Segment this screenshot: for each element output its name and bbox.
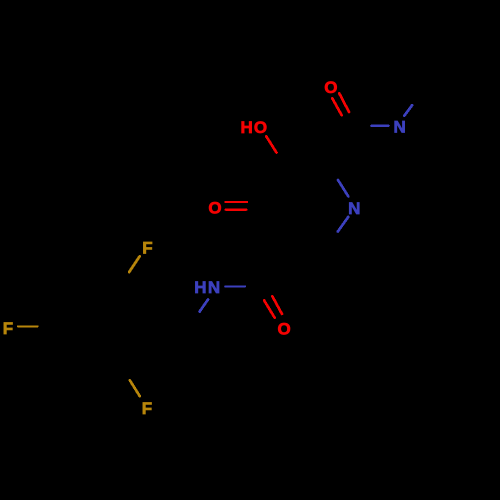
top amide C=O main line oxygen half — [339, 93, 349, 112]
C2-N1 ring bond nitrogen half — [338, 180, 348, 196]
N-cyclopropyl bond nitrogen half — [404, 105, 412, 115]
F left bond fluorine half — [18, 325, 37, 327]
svg-text:N: N — [348, 199, 360, 218]
top amide C=O inner line oxygen half — [332, 98, 341, 115]
svg-text:H: H — [241, 118, 253, 137]
bottom amide C=O inner line oxygen half — [264, 301, 275, 318]
svg-text:F: F — [142, 239, 152, 258]
ketone C4=O upper line oxygen half — [226, 201, 248, 203]
bottom amide C=O main line oxygen half — [272, 296, 282, 314]
F top bond fluorine half — [129, 256, 139, 272]
svg-text:O: O — [208, 199, 221, 218]
svg-text:N: N — [394, 117, 406, 136]
N1-C6 ring bond nitrogen half — [338, 217, 349, 232]
svg-text:O: O — [277, 320, 290, 339]
bond C3-OH oxygen half — [266, 136, 276, 152]
svg-text:N: N — [208, 278, 220, 297]
ketone C4=O lower line oxygen half — [226, 209, 247, 211]
svg-text:F: F — [3, 319, 13, 338]
svg-text:H: H — [194, 278, 206, 297]
F bottom bond fluorine half — [130, 380, 140, 396]
svg-text:O: O — [254, 118, 267, 137]
HN-CH bond nitrogen half — [200, 300, 208, 312]
svg-text:F: F — [142, 399, 152, 418]
HN-C(=O) bond nitrogen half — [225, 285, 245, 287]
svg-text:O: O — [324, 78, 337, 97]
top amide C-N bond nitrogen half — [371, 125, 389, 127]
